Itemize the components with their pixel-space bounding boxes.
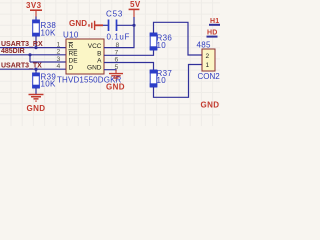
svg-text:C53: C53 bbox=[106, 10, 123, 19]
svg-text:6: 6 bbox=[115, 57, 119, 64]
svg-text:2: 2 bbox=[206, 53, 210, 60]
svg-text:RE: RE bbox=[69, 50, 79, 57]
svg-text:485: 485 bbox=[197, 41, 211, 50]
resistor R36 bbox=[150, 33, 173, 50]
svg-text:R: R bbox=[69, 43, 74, 50]
svg-text:485DIR: 485DIR bbox=[1, 48, 25, 55]
wire pin8 VCC bbox=[104, 25, 134, 47]
wire R39 to gnd bbox=[35, 88, 37, 95]
svg-text:D: D bbox=[69, 65, 74, 72]
resistor R37 bbox=[150, 69, 173, 87]
svg-text:GND: GND bbox=[201, 101, 220, 110]
wire R37 bottom to CON2 pin1 bbox=[154, 65, 203, 98]
svg-text:8: 8 bbox=[116, 42, 120, 49]
junction cap/5V bbox=[132, 24, 135, 27]
resistor R39 bbox=[32, 69, 56, 88]
ground (bottom left) bbox=[27, 95, 46, 114]
svg-text:7: 7 bbox=[115, 49, 119, 56]
node H2 (right edge) bbox=[207, 30, 218, 38]
junction DIR bbox=[28, 53, 31, 56]
svg-text:3V3: 3V3 bbox=[26, 1, 42, 10]
svg-text:DE: DE bbox=[69, 58, 79, 65]
node H1 (right edge) bbox=[209, 18, 220, 26]
svg-text:4: 4 bbox=[57, 63, 61, 70]
svg-text:10: 10 bbox=[157, 76, 167, 85]
wire pin2 485DIR bbox=[0, 54, 66, 56]
svg-text:10: 10 bbox=[157, 41, 167, 50]
svg-text:H1: H1 bbox=[210, 18, 219, 25]
resistor R38 bbox=[32, 20, 56, 38]
svg-text:1: 1 bbox=[57, 42, 61, 49]
wire DIR tie bbox=[29, 55, 31, 62]
ground (sideways, at C53) bbox=[69, 19, 103, 30]
svg-text:GND: GND bbox=[69, 19, 87, 28]
svg-text:10K: 10K bbox=[41, 29, 56, 38]
svg-text:GND: GND bbox=[27, 104, 46, 113]
svg-text:1: 1 bbox=[206, 62, 210, 69]
svg-text:A: A bbox=[97, 58, 102, 65]
connector CON2 bbox=[197, 41, 221, 81]
svg-text:5: 5 bbox=[115, 64, 119, 71]
wire pin7 B to R36 bbox=[104, 50, 154, 55]
op IC U10 THVD1550DGKR bbox=[57, 31, 122, 85]
junction TX bbox=[34, 68, 37, 71]
svg-text:3: 3 bbox=[57, 56, 61, 63]
wire pin1 USART3_RX bbox=[0, 47, 66, 49]
svg-text:2: 2 bbox=[57, 49, 61, 56]
ground (at pin5) bbox=[106, 70, 125, 92]
svg-text:CON2: CON2 bbox=[198, 72, 221, 81]
svg-text:GND: GND bbox=[106, 83, 125, 92]
wire R36 top to CON2 pin2 bbox=[154, 22, 203, 55]
svg-text:5V: 5V bbox=[130, 0, 141, 9]
wire pin5 GND bbox=[104, 70, 116, 71]
junction bbox=[34, 46, 37, 49]
power 3V3 bbox=[26, 1, 42, 20]
svg-text:10K: 10K bbox=[41, 80, 56, 89]
power 5V bbox=[129, 0, 141, 25]
svg-text:VCC: VCC bbox=[88, 43, 102, 50]
svg-text:HD: HD bbox=[207, 30, 218, 37]
svg-text:U10: U10 bbox=[63, 31, 79, 40]
svg-text:USART3_RX: USART3_RX bbox=[1, 41, 43, 48]
wire pin6 A to R37 bbox=[104, 63, 154, 71]
svg-text:B: B bbox=[97, 50, 101, 57]
svg-text:GND: GND bbox=[87, 65, 102, 72]
wire pin3 DE bbox=[30, 61, 66, 63]
wire pin4 USART3_TX bbox=[0, 68, 66, 70]
capacitor C53 bbox=[103, 10, 134, 42]
wire R38 to RX bbox=[35, 36, 37, 48]
svg-text:0.1uF: 0.1uF bbox=[107, 33, 130, 42]
